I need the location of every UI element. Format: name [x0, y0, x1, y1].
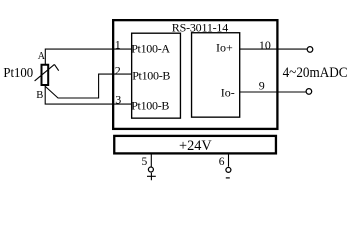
RTD variability diagonal arrow — [35, 64, 55, 81]
input terminal block — [132, 33, 181, 118]
svg-text:4~20mADC: 4~20mADC — [283, 65, 348, 81]
polarity plus symbol — [147, 173, 156, 180]
wire pin 10 to output terminal — [240, 48, 308, 50]
svg-text:5: 5 — [142, 156, 148, 168]
svg-text:A: A — [38, 51, 46, 62]
svg-text:Pt100-B: Pt100-B — [131, 98, 169, 112]
svg-text:Io+: Io+ — [216, 41, 233, 55]
svg-text:Pt100-A: Pt100-A — [131, 41, 170, 55]
polarity minus symbol — [226, 177, 230, 179]
svg-text:6: 6 — [219, 156, 225, 168]
wire sensor B to pin 2 — [45, 74, 131, 98]
svg-text:Pt100: Pt100 — [3, 65, 33, 80]
RTD arrow barb — [54, 64, 58, 70]
terminal circle Io+ — [307, 47, 313, 53]
svg-text:+24V: +24V — [179, 138, 212, 154]
terminal circle pin 5 — [148, 167, 153, 172]
svg-text:Io-: Io- — [221, 86, 235, 100]
output terminal block — [192, 33, 240, 117]
svg-text:9: 9 — [259, 79, 265, 93]
wire sensor A to pin 1 — [45, 49, 131, 64]
svg-text:B: B — [36, 90, 43, 101]
wire pin 5 lead — [150, 155, 152, 167]
svg-text:Pt100-B: Pt100-B — [132, 69, 170, 83]
terminal circle pin 6 — [226, 167, 231, 172]
svg-text:2: 2 — [115, 63, 121, 77]
svg-text:10: 10 — [259, 38, 271, 52]
wire pin 6 lead — [228, 155, 230, 167]
module box U1 RS-3011-14 — [113, 20, 277, 129]
wire pin 9 to output terminal — [240, 91, 307, 93]
wire sensor B to pin 3 — [45, 86, 131, 105]
power supply box +24V — [114, 136, 276, 154]
terminal circle Io- — [306, 89, 312, 95]
RTD sensor RT1 Pt100 body — [42, 65, 49, 85]
